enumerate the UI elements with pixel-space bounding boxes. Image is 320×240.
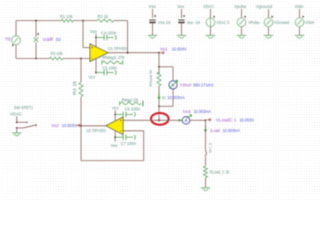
- net label Vee: [177, 4, 185, 9]
- svg-text:Vcc: Vcc: [89, 74, 97, 79]
- svg-text:Vee: Vee: [90, 29, 98, 34]
- svg-text:Vss 24: Vss 24: [158, 20, 171, 25]
- wire VDAC bottom stub: [210, 27, 212, 35]
- svg-text:10.003mA: 10.003mA: [167, 95, 185, 100]
- wire bottom rail left: [16, 58, 50, 60]
- resistor R2: [97, 14, 114, 22]
- net label Vss: [149, 4, 157, 9]
- red highlight ellipse: [151, 113, 169, 125]
- probe Vdiff (X marker): [34, 33, 40, 42]
- svg-text:RMag2 27k: RMag2 27k: [122, 98, 139, 103]
- junction Vo1: [158, 52, 160, 54]
- wire V-meter bottom branch: [159, 89, 173, 106]
- label VPulse: [248, 20, 260, 25]
- resistor RMag1: [102, 55, 125, 64]
- svg-text:RMag1 27k: RMag1 27k: [103, 55, 125, 60]
- junction node A (R1/R2/U1+): [82, 20, 84, 22]
- resistor RLoad_C: [204, 166, 208, 178]
- wire VDAC top stub: [210, 9, 212, 18]
- RMag2 end ticks: [120, 101, 143, 107]
- ammeter Iout: [182, 115, 191, 124]
- wire U1 Vee pin: [95, 34, 97, 47]
- junction main node (circled): [158, 119, 160, 121]
- label VLoadC 1 10.003V: [216, 118, 254, 123]
- probe mark VLoadC: [207, 118, 211, 121]
- wire U2 Vcc pin: [114, 110, 116, 121]
- wire main node to U2 +in: [123, 119, 159, 121]
- junction U1 Vee pin: [95, 37, 97, 39]
- svg-text:Vss: Vss: [149, 4, 157, 9]
- svg-text:Vground: Vground: [256, 4, 273, 9]
- voltmeter VShunt: [169, 80, 178, 89]
- ground Vstim: [295, 35, 304, 38]
- junction R4 top: [80, 58, 82, 60]
- wire V-meter top branch: [159, 67, 173, 81]
- signal source Vstim: [295, 16, 304, 27]
- junction U2 Vee pin: [114, 136, 116, 138]
- capacitor C6: [115, 106, 140, 117]
- wire U1 Vcc pin: [95, 59, 97, 74]
- svg-text:Vo2: Vo2: [51, 123, 59, 128]
- capacitor C5: [96, 65, 117, 75]
- dc source VDAC: [206, 16, 215, 27]
- label Vee -24: [187, 20, 201, 25]
- wire shunt to main node: [158, 86, 160, 120]
- net label VDAC: [203, 4, 214, 9]
- power label Vcc (U1 bottom): [89, 74, 97, 79]
- voltage source Vg: [5, 36, 20, 46]
- wire Vo1 down: [158, 53, 160, 74]
- svg-text:Iout: Iout: [183, 109, 192, 114]
- svg-text:U2 OPA551: U2 OPA551: [86, 128, 106, 133]
- switch SW load (break): [205, 151, 207, 157]
- wire ammeter to load node: [190, 119, 206, 121]
- wire Vstim top stub: [299, 9, 301, 18]
- wire Vg top: [15, 21, 17, 36]
- svg-text:VDAC: VDAC: [10, 111, 22, 116]
- ground Vground: [264, 35, 273, 38]
- svg-text:10.503V: 10.503V: [62, 123, 77, 128]
- current probe mark (wire into ammeter): [179, 119, 182, 121]
- svg-text:VShunt: VShunt: [180, 83, 192, 88]
- junction Vo2 node: [80, 125, 82, 127]
- wire U2 Vee pin: [114, 131, 116, 142]
- svg-text:Vg: Vg: [5, 36, 11, 41]
- resistor R1: [60, 14, 73, 22]
- wire Vg bottom: [15, 45, 17, 59]
- label Vo2 10.503V: [51, 123, 76, 128]
- wire switch to ground: [16, 128, 18, 133]
- current probe ILoad arrow: [204, 126, 207, 132]
- junction switch pivot: [16, 127, 18, 129]
- resistor RShunt: [148, 69, 161, 86]
- wire node A to U1 +in: [83, 21, 90, 48]
- wire main node to ammeter: [159, 119, 182, 121]
- svg-text:ILoad: ILoad: [210, 128, 220, 133]
- svg-text:R2 1k: R2 1k: [98, 14, 109, 19]
- svg-text:VPulse: VPulse: [248, 20, 260, 25]
- capacitor C7: [115, 135, 136, 147]
- signal source Vground: [264, 16, 273, 27]
- label Vdiff 5V: [43, 37, 62, 42]
- svg-text:Vo1: Vo1: [160, 47, 168, 52]
- resistor R4: [72, 80, 83, 97]
- svg-text:SW C_St: SW C_St: [209, 142, 213, 153]
- svg-text:C6 100n: C6 100n: [125, 106, 141, 111]
- label Iout 10.003mA: [183, 109, 211, 114]
- svg-text:VGround: VGround: [274, 20, 290, 25]
- junction top-X: [35, 20, 37, 22]
- signal source Vpulse: [237, 16, 246, 27]
- wire X top: [35, 21, 37, 37]
- wire Vpulse top stub: [241, 9, 243, 18]
- svg-text:Vdiff: Vdiff: [43, 37, 54, 42]
- svg-text:SW-SPDT1: SW-SPDT1: [14, 105, 33, 110]
- battery source Vss: [149, 15, 156, 23]
- svg-text:560.171mV: 560.171mV: [193, 83, 214, 88]
- wire R1-R2: [73, 20, 97, 22]
- svg-text:R4 1k: R4 1k: [72, 80, 77, 95]
- resistor R3: [50, 51, 64, 60]
- wire R4 top lead: [80, 59, 82, 83]
- junction load node: [205, 119, 207, 121]
- svg-text:C4 100n: C4 100n: [101, 31, 117, 36]
- wire Vground top stub: [268, 9, 270, 18]
- svg-text:Vee: Vee: [177, 4, 185, 9]
- RMag1 end ticks: [102, 60, 123, 65]
- svg-text:R3 10k: R3 10k: [51, 51, 64, 56]
- svg-text:Vee -24: Vee -24: [187, 20, 201, 25]
- junction shunt top / V-branch: [158, 66, 160, 68]
- ground Vpulse: [237, 35, 246, 38]
- power label Vcc (U2 top): [112, 106, 120, 111]
- svg-text:R1 10k: R1 10k: [60, 14, 73, 19]
- svg-text:RLoad_C 1k: RLoad_C 1k: [210, 169, 230, 174]
- resistor RMag2: [120, 98, 141, 105]
- svg-text:RShunt 50: RShunt 50: [148, 69, 153, 86]
- label Vo1 10.504V: [160, 47, 187, 52]
- wire RLoad to ground: [205, 178, 207, 188]
- svg-text:Vstim: Vstim: [295, 4, 304, 9]
- label SW-SPDT1: [14, 105, 33, 110]
- net label Vstim: [295, 4, 304, 9]
- ground Vss: [148, 35, 157, 38]
- junction feedback-output: [127, 52, 129, 54]
- net label Vpulse: [234, 4, 247, 9]
- wire switch common stub: [17, 127, 23, 129]
- wire Vground bottom stub: [268, 27, 270, 35]
- op-amp U1 OPA551: [90, 44, 128, 62]
- junction switch throw: [16, 121, 18, 123]
- net label VDAC (switch): [10, 111, 22, 116]
- label Vss 24: [158, 20, 171, 25]
- wire Vee bottom stub: [181, 22, 183, 35]
- pin numbers RMag1: [99, 55, 103, 60]
- power label Vee (U2 bottom): [111, 143, 119, 148]
- wire U2 feedback: [81, 126, 144, 161]
- wire X bottom: [35, 42, 37, 58]
- svg-text:Vee: Vee: [111, 143, 119, 148]
- capacitor C4: [96, 31, 117, 41]
- wire Vpulse bottom stub: [241, 27, 243, 35]
- ground Vee: [177, 35, 186, 38]
- wire R4 bottom lead: [80, 97, 82, 126]
- wire load node down: [205, 120, 207, 150]
- net label Vground: [256, 4, 273, 9]
- junction U2 Vcc pin: [114, 114, 116, 116]
- op-amp U2 OPA551: [86, 117, 123, 135]
- svg-text:10.003mA: 10.003mA: [194, 109, 212, 114]
- wire Vss top stub: [152, 9, 154, 18]
- svg-text:U1 OPA551: U1 OPA551: [108, 46, 128, 51]
- svg-text:Vcc: Vcc: [112, 106, 120, 111]
- wire top rail left: [16, 20, 61, 22]
- junction U1 Vcc pin: [95, 72, 97, 74]
- svg-text:Vpulse: Vpulse: [234, 4, 247, 9]
- svg-text:VDAC: VDAC: [203, 4, 214, 9]
- svg-text:VDAC 5: VDAC 5: [216, 20, 229, 25]
- probe mark Vo1: [160, 51, 164, 54]
- ground switch: [12, 133, 21, 136]
- wire feedback drop: [127, 21, 129, 53]
- svg-text:VStim: VStim: [305, 20, 315, 25]
- power label Vee (U1 top): [90, 29, 98, 34]
- wire Vss bottom stub: [152, 22, 154, 35]
- switch SW-SPDT1 lever: [23, 124, 36, 128]
- wire Vee top stub: [181, 9, 183, 18]
- svg-text:C5 100n: C5 100n: [103, 65, 118, 70]
- label SW C_St (rotated): [209, 142, 213, 153]
- wire R3 to U1 -in: [63, 58, 90, 60]
- wire switch to RLoad: [205, 157, 207, 166]
- junction bottom-X: [35, 58, 37, 60]
- label ILoad 10.003mA: [210, 128, 240, 133]
- svg-text:5V: 5V: [56, 37, 61, 42]
- wire switch throw contact: [17, 121, 27, 123]
- svg-text:VLoadC 1: VLoadC 1: [216, 118, 237, 123]
- label VStim: [305, 20, 315, 25]
- ground VDAC: [206, 35, 215, 38]
- svg-text:10.003V: 10.003V: [240, 118, 255, 123]
- svg-text:10.504V: 10.504V: [172, 47, 187, 52]
- label VGround: [274, 20, 290, 25]
- wire Vstim bottom stub: [299, 27, 301, 35]
- current probe Io arrow: [158, 93, 161, 99]
- svg-text:10.003mA: 10.003mA: [223, 128, 241, 133]
- wire switch VDAC stub: [16, 116, 18, 122]
- ground RLoad: [201, 188, 210, 191]
- label RLoad_C 1k: [210, 169, 230, 174]
- junction V-meter return: [158, 105, 160, 107]
- label VDAC 5: [216, 20, 229, 25]
- wire U2 output: [81, 125, 106, 127]
- wire U1 output: [108, 52, 159, 54]
- label Io 10.003mA: [162, 95, 185, 100]
- wire R2 to feedback corner: [114, 20, 128, 22]
- probe mark Vo2: [76, 124, 80, 127]
- svg-text:C7 100n: C7 100n: [121, 141, 137, 146]
- label VShunt 560.171mV: [180, 83, 214, 88]
- battery source Vee: [178, 15, 185, 23]
